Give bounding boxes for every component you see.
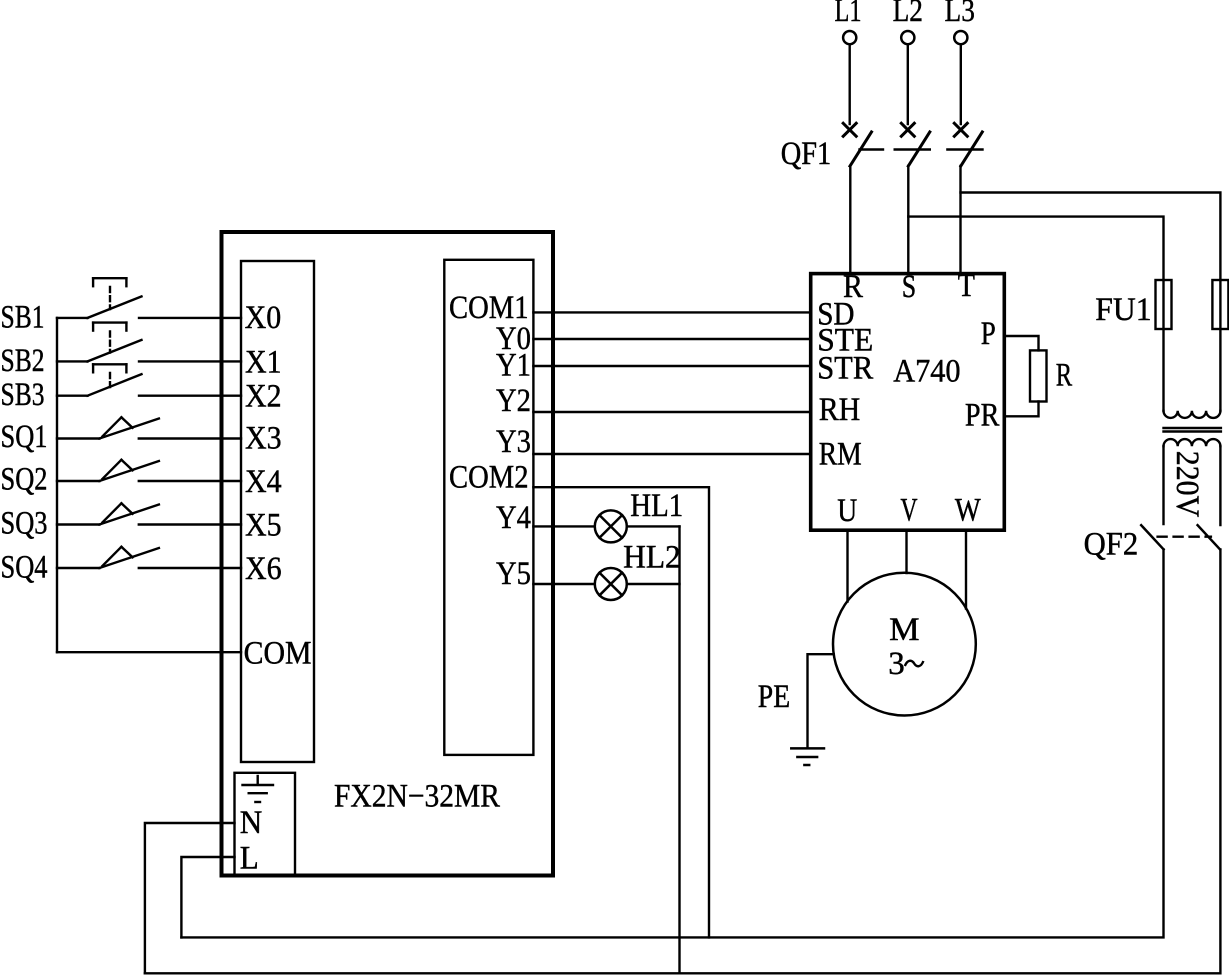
limit switch SQ4 <box>57 547 159 568</box>
inverter U1 A740 box <box>811 274 1005 531</box>
breaker QF2 pole 2 blade <box>1198 525 1220 549</box>
wire QF2 right down to N line <box>145 549 1221 973</box>
fuse FU1 left link wire <box>1162 280 1164 411</box>
wire L1 down <box>849 44 851 124</box>
wire S to inverter <box>907 166 909 273</box>
node: left collector bus wire <box>56 318 58 652</box>
transformer core <box>1164 428 1221 432</box>
ground PE symbol <box>791 748 824 765</box>
svg-text:PE: PE <box>758 679 790 715</box>
wire L terminal <box>181 857 234 937</box>
svg-text:220V: 220V <box>1169 451 1205 518</box>
wire resistor to PR <box>1004 402 1038 417</box>
fuse FU1 right link wire <box>1219 280 1221 411</box>
wire motor PE <box>808 654 834 747</box>
svg-text:FU1: FU1 <box>1095 292 1151 328</box>
QF2 linkage dashes <box>1158 536 1211 538</box>
limit switch SQ1 <box>57 417 159 438</box>
svg-text:SQ4: SQ4 <box>1 550 48 586</box>
wire SB2 to X1 <box>139 360 241 362</box>
breaker QF1 pole 2 <box>901 123 930 166</box>
wire T branch to fuse FU1 right <box>961 193 1221 281</box>
svg-text:X2: X2 <box>245 379 282 415</box>
wire SQ4 to X6 <box>139 567 241 569</box>
pushbutton SB3 <box>57 364 142 395</box>
terminal L3 <box>954 31 967 44</box>
svg-text:Y1: Y1 <box>496 348 531 384</box>
pushbutton SB2 <box>57 323 142 362</box>
svg-text:X5: X5 <box>245 508 282 544</box>
svg-text:L1: L1 <box>835 0 862 29</box>
wire S branch to fuse FU1 left <box>908 217 1163 280</box>
svg-text:M: M <box>889 612 919 648</box>
svg-text:L3: L3 <box>945 0 975 29</box>
wire SQ3 to X5 <box>139 523 241 525</box>
terminal L1 <box>843 31 856 44</box>
svg-text:COM: COM <box>244 636 312 672</box>
svg-text:Y4: Y4 <box>496 500 531 536</box>
svg-text:X1: X1 <box>245 345 282 381</box>
wire Y4 to lamp HL1 <box>533 525 594 527</box>
svg-text:QF2: QF2 <box>1084 527 1139 563</box>
svg-text:3: 3 <box>888 646 905 682</box>
svg-text:X6: X6 <box>245 551 282 587</box>
transformer secondary winding <box>1164 439 1221 446</box>
wire COM1 to SD <box>533 311 810 313</box>
svg-text:L2: L2 <box>893 0 923 29</box>
wire L3 down <box>960 44 962 124</box>
wire T to inverter <box>959 166 961 273</box>
output terminal block COM1-Y5 <box>444 260 533 755</box>
svg-text:SB3: SB3 <box>1 377 45 413</box>
fuse FU1 left cartridge <box>1156 280 1172 329</box>
wire L2 down <box>907 44 909 124</box>
svg-text:X3: X3 <box>245 421 282 457</box>
svg-text:P: P <box>981 316 996 352</box>
svg-text:SQ1: SQ1 <box>1 419 48 455</box>
wire HL1 to neutral drop <box>627 525 680 527</box>
wire Y0 to STE <box>533 338 810 340</box>
svg-text:X0: X0 <box>245 300 282 336</box>
svg-text:Y5: Y5 <box>496 556 531 592</box>
pushbutton SB1 <box>57 278 142 318</box>
breaker QF2 pole 1 blade <box>1141 525 1163 549</box>
wire HL2 to neutral drop <box>627 583 680 585</box>
wire R to inverter <box>849 166 851 273</box>
svg-text:U: U <box>837 493 857 529</box>
limit switch SQ3 <box>57 503 159 524</box>
breaker QF1 pole 3 <box>954 123 982 166</box>
wire Y1 to STR <box>533 365 810 367</box>
wire QF2 left down to L line <box>181 549 1163 937</box>
svg-text:Y3: Y3 <box>496 424 531 460</box>
wire W to motor <box>965 530 967 608</box>
breaker QF1 pole 1 <box>843 123 871 166</box>
wire Y3 to RM <box>533 453 810 455</box>
wire lamps neutral drop to N line <box>678 526 680 973</box>
svg-text:SQ3: SQ3 <box>1 506 48 542</box>
svg-text:L: L <box>240 841 259 877</box>
resistor R braking <box>1030 350 1047 401</box>
svg-text:RM: RM <box>819 437 862 473</box>
wire P to resistor <box>1004 336 1038 350</box>
wire Y5 to lamp HL2 <box>533 583 594 585</box>
svg-text:Y2: Y2 <box>496 383 531 419</box>
svg-text:STR: STR <box>817 351 873 387</box>
svg-text:RH: RH <box>819 392 861 428</box>
svg-text:N: N <box>240 805 263 841</box>
svg-text:SQ2: SQ2 <box>1 462 48 498</box>
svg-text:S: S <box>902 269 916 305</box>
wire secondary right down to QF2 <box>1219 446 1221 525</box>
wire V to motor <box>905 530 907 573</box>
svg-text:HL2: HL2 <box>623 540 681 576</box>
limit switch SQ2 <box>57 460 159 481</box>
svg-text:T: T <box>958 268 975 304</box>
wire Y2 to RH <box>533 411 810 413</box>
motor M1 circle <box>833 573 976 716</box>
svg-text:W: W <box>955 493 981 529</box>
transformer primary winding <box>1164 411 1221 418</box>
terminal L2 <box>901 31 914 44</box>
wire SB1 to X0 <box>139 317 241 319</box>
svg-text:SB1: SB1 <box>1 300 45 336</box>
fuse FU1 right cartridge <box>1212 280 1228 329</box>
ground symbol in N L block <box>243 776 274 802</box>
svg-text:V: V <box>900 493 917 529</box>
lamp HL1 <box>595 510 627 542</box>
svg-text:HL1: HL1 <box>630 488 683 524</box>
svg-text:PR: PR <box>965 398 1000 434</box>
svg-text:QF1: QF1 <box>781 136 832 172</box>
wire SB3 to X2 <box>139 395 241 397</box>
wire secondary left down to QF2 <box>1162 446 1164 524</box>
svg-text:FX2N−32MR: FX2N−32MR <box>334 779 500 815</box>
wire SQ2 to X4 <box>139 480 241 482</box>
svg-text:COM2: COM2 <box>449 460 529 496</box>
svg-text:R: R <box>1056 358 1072 394</box>
wire COM input <box>57 651 241 653</box>
wire N terminal <box>145 823 235 973</box>
wire COM2 to L line <box>533 487 709 937</box>
QF1 linkage dashes <box>860 148 983 150</box>
svg-text:SB2: SB2 <box>1 343 45 379</box>
wire U to motor <box>846 530 848 601</box>
wire SQ1 to X3 <box>139 437 241 439</box>
svg-text:X4: X4 <box>245 464 282 500</box>
input terminal block X0-COM <box>241 261 314 762</box>
PLC box FX2N-32MR <box>222 232 554 876</box>
lamp HL2 <box>595 568 627 600</box>
svg-text:A740: A740 <box>893 353 960 389</box>
N L terminal block <box>235 773 296 876</box>
